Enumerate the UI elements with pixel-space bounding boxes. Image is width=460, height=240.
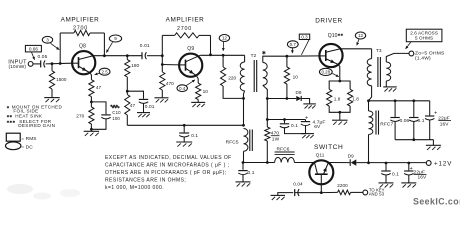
svg-text:AMPLIFIER: AMPLIFIER bbox=[166, 17, 205, 24]
svg-text:12: 12 bbox=[222, 36, 228, 41]
svg-text:0.05: 0.05 bbox=[38, 54, 48, 60]
svg-text:C10: C10 bbox=[112, 110, 121, 115]
svg-text:+12V: +12V bbox=[434, 160, 452, 167]
svg-text:T2: T2 bbox=[251, 53, 257, 58]
svg-text:✱✱✱: ✱✱✱ bbox=[110, 104, 119, 108]
svg-text:D9: D9 bbox=[348, 154, 354, 159]
svg-text:5 OHMS: 5 OHMS bbox=[415, 36, 433, 41]
svg-text:SWITCH: SWITCH bbox=[314, 144, 343, 151]
svg-text:Q8: Q8 bbox=[79, 43, 86, 49]
svg-text:47: 47 bbox=[130, 103, 136, 108]
svg-text:RFC7: RFC7 bbox=[380, 122, 393, 128]
svg-text:+: + bbox=[305, 116, 308, 122]
svg-text:2.5: 2.5 bbox=[101, 69, 108, 74]
svg-text:0.4: 0.4 bbox=[179, 86, 186, 91]
svg-text:DESIRED GAIN: DESIRED GAIN bbox=[18, 123, 55, 128]
svg-text:9: 9 bbox=[114, 36, 117, 41]
svg-text:0.1: 0.1 bbox=[392, 171, 399, 177]
svg-text:= DC: = DC bbox=[21, 144, 33, 150]
svg-text:1.8: 1.8 bbox=[352, 96, 359, 101]
svg-text:47: 47 bbox=[96, 85, 102, 90]
svg-text:AND S3: AND S3 bbox=[369, 192, 385, 197]
svg-text:RFC5: RFC5 bbox=[226, 139, 239, 145]
svg-text:270: 270 bbox=[76, 114, 84, 119]
svg-text:16V: 16V bbox=[418, 175, 428, 181]
svg-text:✱✱: ✱✱ bbox=[338, 33, 344, 37]
svg-text:D8: D8 bbox=[296, 90, 302, 95]
svg-text:0.7: 0.7 bbox=[290, 42, 297, 47]
svg-text:(1.4W): (1.4W) bbox=[415, 55, 431, 61]
svg-text:✱✱✱: ✱✱✱ bbox=[7, 120, 17, 124]
svg-text:0.1: 0.1 bbox=[248, 170, 255, 176]
svg-text:1500: 1500 bbox=[56, 77, 67, 82]
svg-text:0.66: 0.66 bbox=[29, 46, 39, 51]
svg-text:0.04: 0.04 bbox=[293, 182, 303, 187]
svg-text:2700: 2700 bbox=[177, 26, 192, 32]
svg-text:Q11: Q11 bbox=[316, 153, 325, 158]
svg-text:k=1 000, M=1000 000.: k=1 000, M=1000 000. bbox=[105, 185, 164, 191]
svg-text:0.01: 0.01 bbox=[140, 43, 150, 49]
svg-text:0.28: 0.28 bbox=[322, 69, 331, 74]
svg-text:+: + bbox=[410, 166, 413, 172]
svg-text:RESISTANCES ARE IN OHMS;: RESISTANCES ARE IN OHMS; bbox=[105, 177, 186, 183]
svg-text:16V: 16V bbox=[440, 121, 450, 127]
svg-text:220: 220 bbox=[228, 75, 236, 80]
svg-text:0.06: 0.06 bbox=[400, 118, 410, 124]
svg-text:0.3: 0.3 bbox=[301, 34, 308, 39]
svg-text:SeekIC.com: SeekIC.com bbox=[413, 197, 460, 207]
svg-text:T3: T3 bbox=[376, 48, 382, 53]
svg-text:OTHERS ARE IN PICOFARADS ( pF: OTHERS ARE IN PICOFARADS ( pF OR μμF); bbox=[105, 170, 227, 176]
svg-text:✱: ✱ bbox=[262, 50, 266, 56]
svg-text:(10mW): (10mW) bbox=[8, 64, 26, 70]
svg-text:100: 100 bbox=[112, 116, 120, 121]
svg-text:CAPACITANCE ARE IN MICROFARADS: CAPACITANCE ARE IN MICROFARADS ( μF ) ; bbox=[105, 163, 229, 169]
svg-text:0.1: 0.1 bbox=[418, 118, 425, 124]
svg-text:0.1: 0.1 bbox=[191, 133, 198, 139]
svg-text:AMPLIFIER: AMPLIFIER bbox=[61, 17, 100, 24]
svg-text:470: 470 bbox=[166, 81, 174, 86]
svg-text:= RMS: = RMS bbox=[21, 136, 36, 142]
svg-text:6V: 6V bbox=[314, 124, 321, 130]
svg-text:Q10: Q10 bbox=[328, 33, 338, 39]
svg-text:180: 180 bbox=[131, 63, 139, 68]
svg-text:1.8: 1.8 bbox=[334, 96, 341, 101]
svg-text:2200: 2200 bbox=[337, 183, 348, 188]
svg-text:3: 3 bbox=[46, 37, 49, 42]
svg-text:0.1: 0.1 bbox=[291, 123, 298, 129]
svg-text:+: + bbox=[434, 111, 437, 117]
svg-text:10: 10 bbox=[203, 89, 209, 94]
svg-text:DRIVER: DRIVER bbox=[315, 17, 342, 24]
svg-text:1W: 1W bbox=[272, 137, 280, 143]
svg-text:Q9: Q9 bbox=[187, 46, 194, 52]
svg-text:10: 10 bbox=[293, 75, 299, 80]
svg-text:0.01: 0.01 bbox=[145, 104, 155, 110]
svg-text:EXCEPT AS INDICATED, DECIMAL V: EXCEPT AS INDICATED, DECIMAL VALUES OF bbox=[105, 155, 232, 161]
svg-text:12: 12 bbox=[358, 33, 364, 38]
